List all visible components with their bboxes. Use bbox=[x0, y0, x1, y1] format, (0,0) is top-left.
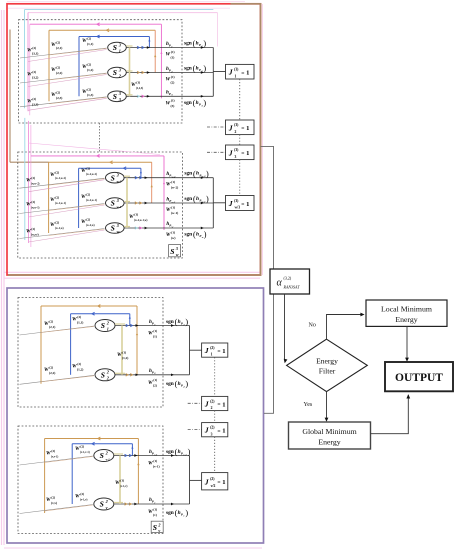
svg-text:(2): (2) bbox=[56, 40, 60, 44]
connector bus D to Jv/2(2) bbox=[190, 479, 202, 481]
svg-text:(1): (1) bbox=[171, 50, 175, 54]
row wire A row2 bbox=[126, 72, 213, 74]
svg-text:(2): (2) bbox=[80, 492, 84, 496]
svg-text:(2): (2) bbox=[56, 90, 60, 94]
svg-text:(w): (w) bbox=[171, 236, 176, 240]
neuron Sv^2 D bbox=[94, 498, 114, 510]
svg-text:(2): (2) bbox=[51, 449, 55, 453]
svg-text:w-2: w-2 bbox=[172, 176, 177, 179]
svg-text:(2): (2) bbox=[55, 170, 59, 174]
svg-text:1: 1 bbox=[222, 479, 225, 486]
svg-text:3: 3 bbox=[118, 42, 121, 47]
svg-text:2: 2 bbox=[235, 130, 237, 134]
magenta wire left verticals A bbox=[27, 13, 29, 112]
svg-text:2: 2 bbox=[106, 376, 109, 381]
svg-text:S: S bbox=[153, 523, 157, 532]
svg-text:2: 2 bbox=[211, 406, 213, 410]
svg-text:=: = bbox=[241, 202, 244, 208]
svg-text:v: v bbox=[158, 528, 160, 533]
arrow diamond to global minimum energy bbox=[326, 392, 328, 419]
neuron S2^3 A bbox=[108, 67, 127, 78]
alpha RAN3SAT box bbox=[270, 269, 310, 294]
pale pink feedback wires below RAN3SAT block bbox=[4, 271, 260, 273]
svg-text:J: J bbox=[204, 477, 209, 486]
dash-dot stub into J3(3) bbox=[207, 151, 226, 153]
svg-text:S: S bbox=[111, 224, 115, 233]
row wire C row1 bbox=[115, 325, 190, 327]
S_w^3 state label box bbox=[169, 245, 181, 257]
dashed sub-network box A bbox=[19, 20, 183, 123]
svg-text:J: J bbox=[204, 346, 209, 355]
svg-text:3: 3 bbox=[116, 198, 119, 203]
svg-text:S: S bbox=[111, 173, 115, 182]
pale pink wires alongside red box border bbox=[262, 4, 264, 275]
svg-text:1: 1 bbox=[171, 45, 172, 48]
RAN3SAT section box (red) bbox=[7, 4, 261, 275]
svg-text:2: 2 bbox=[157, 522, 160, 527]
blue wire loop B bbox=[78, 168, 80, 228]
W(1) chain wire C bbox=[121, 326, 123, 375]
neuron S3^3 A bbox=[108, 91, 127, 102]
svg-text:(1,2): (1,2) bbox=[122, 356, 128, 360]
tan wire loop A bbox=[48, 30, 50, 101]
svg-text:(1): (1) bbox=[120, 478, 124, 482]
svg-text:(2): (2) bbox=[55, 220, 59, 224]
svg-text:(v,v): (v,v) bbox=[51, 501, 57, 505]
connector diamond to local minimum energy bbox=[327, 315, 362, 340]
svg-text:S: S bbox=[113, 92, 117, 101]
svg-text:(2): (2) bbox=[77, 362, 81, 366]
neuron Sv-1^2 D bbox=[94, 450, 114, 462]
dotted connector J3-Jv/2 (2SAT) bbox=[214, 437, 216, 473]
row wire B row2 bbox=[124, 202, 213, 204]
neuron S2^2 C bbox=[95, 369, 115, 381]
svg-text:w: w bbox=[176, 252, 179, 257]
svg-text:v-1: v-1 bbox=[106, 457, 110, 461]
svg-text:(w-1,w): (w-1,w) bbox=[55, 227, 64, 230]
blue wire loop D bbox=[71, 444, 73, 504]
row wire D row2 bbox=[114, 503, 190, 505]
svg-text:(1,2): (1,2) bbox=[87, 68, 93, 72]
svg-text:S: S bbox=[113, 68, 117, 77]
tan feedback wire overlapping red box border (top-right/right/bottom) bbox=[8, 4, 261, 275]
svg-text:v-1: v-1 bbox=[183, 454, 186, 457]
svg-text:3: 3 bbox=[118, 91, 121, 96]
svg-text:(2): (2) bbox=[86, 217, 90, 221]
dashed sub-network box C bbox=[18, 298, 163, 408]
fan-in connection lines A bbox=[20, 48, 107, 58]
row wire C row2 bbox=[115, 374, 190, 376]
svg-text:1: 1 bbox=[235, 74, 237, 78]
svg-text:(1): (1) bbox=[134, 212, 138, 216]
pale pink outer feedback wire (far left vertical pair) bbox=[1, 10, 3, 545]
svg-text:(2,3): (2,3) bbox=[56, 96, 62, 100]
blue wire loop A bbox=[78, 37, 80, 97]
svg-text:3: 3 bbox=[116, 223, 119, 228]
dash-dot stub into J2(3) bbox=[207, 126, 226, 128]
connector bus C to J1(2) bbox=[190, 349, 202, 351]
svg-text:2: 2 bbox=[105, 499, 108, 504]
svg-text:(3,1): (3,1) bbox=[32, 51, 38, 55]
svg-text:): ) bbox=[185, 379, 188, 388]
clause box Jv/2(2) bbox=[202, 473, 228, 490]
svg-text:(2): (2) bbox=[210, 399, 215, 403]
dash-dot stub into J3(2) bbox=[188, 429, 202, 431]
magenta feedback diagonal from sub-network A into B bbox=[29, 143, 160, 155]
W(1) chain wire A bbox=[129, 48, 131, 97]
svg-text:(w-1,w-1): (w-1,w-1) bbox=[55, 202, 66, 205]
svg-text:(2): (2) bbox=[31, 227, 35, 231]
svg-text:(1): (1) bbox=[171, 75, 175, 79]
dotted connector J2-J3 (2SAT) bbox=[214, 411, 216, 423]
svg-text:sgn: sgn bbox=[166, 381, 174, 387]
svg-text:(2): (2) bbox=[210, 426, 215, 430]
svg-text:J: J bbox=[204, 426, 209, 435]
svg-text:(1): (1) bbox=[171, 230, 175, 234]
dash-dot stub into J2(2) bbox=[188, 402, 202, 404]
dotted connector J1-J2 (2SAT) bbox=[214, 357, 216, 396]
svg-text:2: 2 bbox=[106, 370, 109, 375]
svg-text:=: = bbox=[241, 151, 244, 157]
svg-text:1: 1 bbox=[222, 428, 225, 435]
svg-text:w: w bbox=[117, 229, 120, 234]
svg-text:3: 3 bbox=[175, 246, 178, 251]
svg-text:J: J bbox=[228, 123, 233, 132]
tan wire loop D bbox=[44, 439, 46, 514]
svg-text:=: = bbox=[217, 402, 220, 408]
neuron Sw^3 B bbox=[106, 223, 125, 234]
svg-text:=: = bbox=[217, 349, 220, 355]
OUTPUT box bbox=[385, 362, 453, 391]
dotted connector J1-J2 (3SAT) bbox=[239, 79, 241, 120]
svg-text:Global Minimum: Global Minimum bbox=[302, 427, 356, 436]
dotted connector between sub-networks A and B bbox=[99, 123, 101, 152]
svg-text:(1,1): (1,1) bbox=[87, 42, 93, 46]
svg-text:(1,2): (1,2) bbox=[77, 367, 83, 371]
svg-text:v: v bbox=[106, 505, 108, 510]
svg-text:(1,2,3): (1,2,3) bbox=[136, 87, 143, 90]
svg-text:(2): (2) bbox=[86, 166, 90, 170]
magenta wire left verticals B bbox=[28, 121, 30, 243]
svg-text:J: J bbox=[204, 400, 209, 409]
svg-text:1: 1 bbox=[246, 150, 249, 157]
svg-text:sgn: sgn bbox=[184, 41, 192, 47]
svg-text:Local Minimum: Local Minimum bbox=[381, 305, 432, 314]
svg-text:Filter: Filter bbox=[319, 367, 336, 376]
svg-text:(v-1): (v-1) bbox=[153, 464, 160, 468]
svg-text:v-1: v-1 bbox=[154, 453, 157, 456]
dotted connector J3-Jw/3 (3SAT) bbox=[239, 160, 241, 196]
row wire A row1 bbox=[126, 47, 213, 49]
tan wire loop B bbox=[48, 162, 50, 233]
svg-text:1: 1 bbox=[119, 48, 121, 53]
svg-text:OUTPUT: OUTPUT bbox=[395, 372, 443, 384]
output bus sub-network A bbox=[212, 48, 214, 97]
svg-text:S: S bbox=[100, 451, 104, 460]
svg-text:S: S bbox=[101, 370, 105, 379]
svg-text:1: 1 bbox=[107, 326, 109, 331]
magenta wire top + right vertical A bbox=[30, 23, 162, 25]
svg-text:Energy: Energy bbox=[316, 357, 338, 366]
svg-text:(2): (2) bbox=[210, 346, 215, 350]
svg-text:(1): (1) bbox=[171, 180, 175, 184]
svg-text:(1): (1) bbox=[153, 378, 157, 382]
tan wire loop C bbox=[40, 306, 42, 384]
svg-text:S: S bbox=[101, 321, 105, 330]
svg-text:(1): (1) bbox=[153, 329, 157, 333]
svg-text:): ) bbox=[203, 98, 206, 107]
arrow alpha box to energy filter bbox=[284, 294, 286, 360]
arrow local minimum to output bbox=[406, 326, 408, 358]
svg-text:v/2: v/2 bbox=[211, 484, 216, 488]
svg-text:(2,1): (2,1) bbox=[49, 325, 55, 329]
svg-text:(2): (2) bbox=[80, 444, 84, 448]
svg-text:(w-2,w-1,w): (w-2,w-1,w) bbox=[134, 219, 148, 222]
svg-text:sgn: sgn bbox=[184, 66, 192, 72]
svg-text:Yes: Yes bbox=[304, 402, 313, 408]
row wire B row3 bbox=[124, 227, 213, 229]
blue wire loop C bbox=[70, 314, 72, 375]
svg-text:(v-1,v-1): (v-1,v-1) bbox=[80, 451, 90, 454]
svg-text:(w,w): (w,w) bbox=[31, 232, 39, 236]
svg-text:3: 3 bbox=[211, 432, 213, 436]
svg-text:(v): (v) bbox=[153, 513, 157, 517]
svg-text:): ) bbox=[185, 318, 188, 327]
svg-text:(2): (2) bbox=[32, 70, 36, 74]
svg-text:(1): (1) bbox=[171, 205, 175, 209]
svg-text:(2): (2) bbox=[49, 319, 53, 323]
svg-text:(w-2,w-2): (w-2,w-2) bbox=[86, 173, 97, 176]
svg-text:(2): (2) bbox=[77, 315, 81, 319]
svg-text:sgn: sgn bbox=[166, 319, 174, 325]
svg-text:(2): (2) bbox=[32, 46, 36, 50]
svg-text:(2): (2) bbox=[153, 384, 157, 388]
svg-text:S: S bbox=[100, 500, 104, 509]
svg-text:): ) bbox=[206, 195, 209, 204]
fan-in connection lines D bbox=[20, 456, 93, 465]
svg-text:): ) bbox=[188, 448, 191, 457]
svg-text:sgn: sgn bbox=[166, 449, 174, 455]
global minimum energy box bbox=[289, 422, 371, 449]
svg-text:(2): (2) bbox=[31, 200, 35, 204]
svg-text:(2): (2) bbox=[32, 97, 36, 101]
svg-text:3: 3 bbox=[118, 67, 121, 72]
dashed sub-network box B bbox=[18, 152, 183, 258]
svg-text:2: 2 bbox=[106, 320, 109, 325]
svg-text:(2,2): (2,2) bbox=[49, 371, 55, 375]
svg-text:sgn: sgn bbox=[184, 232, 192, 238]
svg-text:(1): (1) bbox=[122, 350, 126, 354]
neuron S1^3 A bbox=[108, 42, 127, 53]
output bus sub-network C bbox=[189, 326, 191, 375]
neuron Sw-1^3 B bbox=[106, 198, 125, 209]
local minimum energy box bbox=[366, 300, 447, 326]
svg-text:α: α bbox=[277, 278, 283, 289]
neuron S1^2 C bbox=[95, 320, 115, 332]
svg-text:RAN3SAT: RAN3SAT bbox=[283, 285, 301, 290]
svg-text:(1): (1) bbox=[153, 507, 157, 511]
svg-text:w/3: w/3 bbox=[235, 206, 241, 210]
svg-text:Energy: Energy bbox=[318, 438, 340, 447]
svg-text:): ) bbox=[204, 230, 207, 239]
svg-text:(1): (1) bbox=[153, 459, 157, 463]
svg-text:w-2: w-2 bbox=[117, 180, 122, 184]
svg-text:3: 3 bbox=[116, 173, 119, 178]
svg-text:Energy: Energy bbox=[395, 315, 417, 324]
svg-text:(w-1,w-2): (w-1,w-2) bbox=[55, 177, 66, 180]
RAN2SAT section box (purple) bbox=[7, 288, 264, 543]
tan feedback wire left vertical (x=10) bbox=[9, 30, 11, 163]
svg-text:): ) bbox=[203, 64, 206, 73]
svg-text:(2): (2) bbox=[56, 65, 60, 69]
svg-text:(w-2,w): (w-2,w) bbox=[86, 224, 95, 227]
svg-text:J: J bbox=[228, 68, 233, 77]
clause box J2(3) bbox=[226, 120, 255, 135]
svg-text:(1): (1) bbox=[153, 334, 157, 338]
svg-text:sgn: sgn bbox=[184, 100, 192, 106]
svg-text:(w-1): (w-1) bbox=[171, 211, 178, 215]
svg-text:(2): (2) bbox=[87, 87, 91, 91]
svg-text:(2): (2) bbox=[86, 192, 90, 196]
svg-text:(w-2): (w-2) bbox=[171, 186, 178, 190]
fan-in connection lines B bbox=[19, 178, 104, 188]
connector purple section to alpha box bbox=[264, 294, 274, 413]
svg-text:(w-2,w-1): (w-2,w-1) bbox=[86, 199, 97, 202]
output bus sub-network D bbox=[189, 456, 191, 505]
svg-text:1: 1 bbox=[211, 353, 213, 357]
cyan feedback wire top horizontal bbox=[25, 9, 214, 11]
svg-text:(3,3): (3,3) bbox=[32, 102, 38, 106]
svg-text:(3): (3) bbox=[234, 199, 239, 203]
neuron Sw-2^3 B bbox=[106, 172, 125, 183]
svg-text:(3): (3) bbox=[234, 148, 239, 152]
dotted connector J2-J3 (3SAT) bbox=[239, 135, 241, 145]
svg-text:=: = bbox=[241, 70, 244, 76]
svg-text:): ) bbox=[206, 169, 209, 178]
svg-text:(v-1,v): (v-1,v) bbox=[120, 485, 127, 488]
svg-text:1: 1 bbox=[154, 323, 155, 326]
svg-text:(2): (2) bbox=[55, 195, 59, 199]
output bus sub-network B bbox=[212, 178, 214, 228]
svg-text:=: = bbox=[241, 126, 244, 132]
clause box J3(3) bbox=[226, 145, 255, 160]
energy filter diamond bbox=[287, 339, 368, 391]
connector global minimum to output bbox=[371, 395, 409, 434]
svg-text:(2): (2) bbox=[49, 365, 53, 369]
cyan wire left vertical A bbox=[24, 10, 26, 109]
magenta wire top + right vertical B bbox=[31, 155, 164, 157]
svg-text:sgn: sgn bbox=[184, 171, 192, 177]
cyan wire left vertical B bbox=[24, 118, 26, 240]
fan-in connection lines C bbox=[20, 326, 95, 335]
svg-text:(2,1): (2,1) bbox=[56, 46, 62, 50]
connector bus B to Jw/3(3) bbox=[213, 202, 225, 204]
row wire D row1 bbox=[114, 455, 190, 457]
svg-text:J: J bbox=[228, 199, 233, 208]
W(1) chain wire B bbox=[126, 178, 128, 228]
svg-text:S: S bbox=[111, 199, 115, 208]
clause box Jw/3(3) bbox=[226, 196, 255, 211]
svg-text:(1): (1) bbox=[171, 55, 175, 59]
svg-text:(1): (1) bbox=[136, 80, 140, 84]
svg-text:(3): (3) bbox=[234, 123, 239, 127]
S_v^2 state label box bbox=[151, 521, 163, 532]
svg-text:(2): (2) bbox=[31, 176, 35, 180]
svg-text:sgn: sgn bbox=[184, 196, 192, 202]
clause box J2(2) bbox=[202, 396, 228, 410]
svg-text:1: 1 bbox=[246, 201, 249, 208]
svg-text:): ) bbox=[185, 509, 188, 518]
svg-text:w-1: w-1 bbox=[202, 201, 206, 204]
svg-text:S: S bbox=[113, 43, 117, 52]
svg-text:1: 1 bbox=[222, 348, 225, 355]
svg-text:S: S bbox=[170, 247, 174, 256]
svg-text:1: 1 bbox=[246, 125, 249, 132]
svg-text:(2): (2) bbox=[51, 495, 55, 499]
svg-text:(2,2): (2,2) bbox=[56, 71, 62, 75]
svg-text:3: 3 bbox=[118, 97, 121, 102]
svg-text:(1,3): (1,3) bbox=[87, 93, 93, 97]
svg-text:1: 1 bbox=[222, 401, 225, 408]
svg-text:(w,w-1): (w,w-1) bbox=[31, 206, 40, 209]
clause box J3(2) bbox=[202, 423, 228, 437]
W(1) chain wire D bbox=[119, 456, 121, 505]
svg-text:(v-1,v): (v-1,v) bbox=[80, 498, 87, 501]
svg-text:(3): (3) bbox=[171, 104, 175, 108]
svg-text:(2): (2) bbox=[87, 62, 91, 66]
svg-text:1: 1 bbox=[246, 70, 249, 77]
svg-text:(1,1): (1,1) bbox=[77, 320, 83, 324]
svg-text:=: = bbox=[217, 428, 220, 434]
magenta feedback wire top horizontal bbox=[28, 12, 218, 14]
svg-text:(1): (1) bbox=[171, 99, 175, 103]
clause box J1(2) bbox=[202, 343, 228, 357]
svg-text:(2): (2) bbox=[210, 477, 215, 481]
row wire B row1 bbox=[124, 177, 213, 179]
svg-text:(2): (2) bbox=[171, 80, 175, 84]
dashed sub-network box D bbox=[18, 426, 163, 534]
svg-text:=: = bbox=[217, 480, 220, 486]
row wire A row3 bbox=[126, 95, 213, 97]
clause box J1(3) bbox=[226, 64, 255, 79]
svg-text:J: J bbox=[228, 148, 233, 157]
connector red section to alpha box bbox=[261, 146, 274, 269]
svg-text:2: 2 bbox=[170, 70, 173, 73]
svg-text:sgn: sgn bbox=[166, 510, 174, 516]
svg-text:): ) bbox=[203, 39, 206, 48]
svg-text:No: No bbox=[309, 323, 316, 329]
svg-text:(w,w-2): (w,w-2) bbox=[31, 182, 40, 185]
svg-text:(3,2): (3,2) bbox=[32, 75, 38, 79]
svg-text:2: 2 bbox=[118, 73, 121, 78]
svg-text:w-1: w-1 bbox=[172, 201, 176, 204]
svg-text:(3): (3) bbox=[234, 68, 239, 72]
svg-text:2: 2 bbox=[105, 450, 108, 455]
svg-text:(v,v-1): (v,v-1) bbox=[51, 455, 58, 458]
connector bus A to J1(3) bbox=[213, 71, 225, 73]
svg-text:3: 3 bbox=[235, 155, 237, 159]
svg-text:w-1: w-1 bbox=[117, 205, 122, 209]
svg-text:(2): (2) bbox=[87, 36, 91, 40]
